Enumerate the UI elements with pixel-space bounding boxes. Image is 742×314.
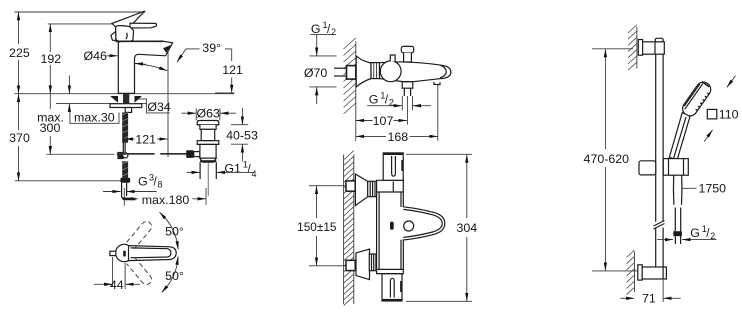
economy button + ring	[390, 221, 414, 231]
dimension Ø70 (escutcheon)	[304, 34, 337, 104]
svg-text:G: G	[690, 226, 700, 240]
dimension 470-620	[584, 49, 640, 271]
svg-text:max.30: max.30	[74, 110, 115, 124]
hose break + lower hose	[675, 208, 680, 232]
dimension 121 (spout height)	[215, 49, 243, 93]
svg-text:71: 71	[642, 292, 656, 306]
lever top view: handle body	[129, 246, 177, 261]
label Ø46 with arrow to body	[84, 49, 118, 63]
svg-text:121: 121	[135, 132, 156, 146]
faucet lever blade	[112, 11, 156, 30]
svg-text:G: G	[311, 22, 321, 36]
dimension 121 (spout reach)	[125, 130, 168, 146]
svg-text:107: 107	[373, 114, 394, 128]
faucet lever knuckle	[111, 26, 134, 42]
svg-text:G: G	[138, 175, 148, 189]
dashed lever position -50° (down)	[127, 257, 154, 286]
label 50° lower	[165, 269, 184, 283]
svg-text:304: 304	[456, 221, 477, 235]
svg-text:max.180: max.180	[142, 193, 190, 207]
braided supply hose	[122, 113, 128, 178]
shower hose outlet fitting	[402, 82, 413, 125]
hose end nut G1/2	[673, 231, 682, 244]
pop-up waste: tailpipe	[200, 162, 216, 196]
svg-text:168: 168	[387, 130, 408, 144]
thermostat body (front)	[377, 180, 445, 273]
dimension max.300	[37, 94, 64, 155]
countertop line	[14, 93, 234, 95]
dimension 40-53	[226, 108, 258, 162]
svg-text:Ø70: Ø70	[304, 66, 328, 80]
svg-text:40-53: 40-53	[226, 129, 258, 143]
dimension 304	[406, 154, 477, 301]
label G 1/2 (hose outlet) with pinch arrows	[367, 90, 431, 107]
svg-text:300: 300	[40, 121, 61, 135]
svg-text:121: 121	[222, 63, 243, 77]
svg-text:192: 192	[40, 52, 61, 66]
svg-text:Ø63: Ø63	[196, 106, 220, 120]
pop-up waste: plug cap	[197, 121, 219, 130]
svg-text:50°: 50°	[165, 269, 184, 283]
wall rail (lower part)	[656, 228, 663, 268]
pop-up waste: upper body	[197, 129, 219, 144]
svg-text:39°: 39°	[202, 41, 221, 55]
svg-text:G: G	[369, 92, 379, 106]
bottom wall block with hatching	[627, 250, 635, 295]
swivel arc upper with arrows	[160, 212, 179, 250]
svg-text:50°: 50°	[165, 225, 184, 239]
pop-up rod vertical	[122, 135, 124, 152]
spout outlet lip	[434, 82, 440, 85]
spout angle arc (39°)	[135, 63, 167, 70]
dimension 370	[9, 94, 30, 181]
supply pipe in wall	[334, 66, 356, 80]
wall rail (upper part)	[656, 54, 663, 222]
svg-text:225: 225	[9, 46, 30, 60]
label G 1/2 (wall union, top)	[310, 20, 336, 37]
top handle (temperature)	[383, 153, 403, 180]
label 39° with leader to aerator	[177, 41, 232, 62]
dimension 192	[40, 24, 61, 94]
dimension 107	[356, 114, 407, 128]
label G1 1/4 with pinch arrows on waste tailpipe	[187, 160, 257, 179]
label G 3/8 with pinch arrows on supply hose	[103, 173, 163, 192]
basin mixer: lever-base reference line	[48, 23, 116, 25]
label square-110	[704, 76, 739, 142]
label 1750 with leader	[683, 182, 727, 196]
dimension max.30 (counter thickness)	[69, 76, 119, 125]
bottom handle (volume)	[382, 274, 402, 301]
svg-text:8: 8	[158, 180, 163, 190]
faucet body column and spout	[116, 41, 173, 93]
svg-text:4: 4	[252, 169, 257, 179]
svg-text:G1: G1	[224, 161, 241, 175]
union nut	[371, 63, 380, 79]
mounting clamp under counter	[110, 94, 142, 112]
shower hose (upper)	[673, 175, 682, 205]
svg-text:2: 2	[331, 27, 336, 37]
lever top view: pivot circle	[110, 244, 133, 261]
dimension 168	[356, 85, 438, 144]
shower rail: top wall block with hatching	[628, 25, 637, 70]
svg-text:370: 370	[9, 131, 30, 145]
label 50° upper	[165, 225, 184, 239]
top stub	[390, 55, 395, 62]
label Ø34 with bracket leader	[138, 99, 171, 114]
supply tube with elbow	[122, 183, 136, 200]
dimension max.180	[124, 188, 206, 207]
dimension 71	[620, 280, 680, 306]
svg-text:110: 110	[719, 108, 739, 122]
hose connector nut	[120, 178, 130, 183]
top wall union nut + cone	[346, 174, 377, 206]
bottom wall union nut + cone	[346, 249, 377, 280]
diverter knob	[401, 46, 413, 62]
pop-up horizontal rod	[47, 153, 188, 155]
dimension 150±15	[297, 186, 346, 266]
hose-end reference line	[15, 180, 121, 182]
rail break symbol	[654, 221, 665, 230]
counter underside line	[56, 103, 147, 105]
escutcheon cone	[356, 56, 371, 87]
basin mixer: top reference line (lever tip)	[14, 11, 145, 13]
pop-up linkage cross fitting	[117, 152, 128, 159]
svg-text:Ø34: Ø34	[147, 100, 171, 114]
svg-text:44: 44	[110, 278, 124, 292]
svg-text:Ø46: Ø46	[84, 49, 108, 63]
handshower handle	[669, 113, 690, 160]
spout-tip extension line	[167, 52, 169, 157]
dimension 225	[9, 12, 30, 94]
thermostat handle circle	[380, 61, 401, 82]
bottom rail bracket	[638, 265, 667, 280]
dimension Ø63	[182, 106, 237, 120]
dashed lever position +50° (up)	[127, 219, 154, 248]
top rail bracket	[638, 38, 664, 55]
dimension 44	[94, 257, 140, 292]
svg-text:1750: 1750	[699, 182, 727, 196]
mixer body and spout	[380, 62, 451, 82]
handshower head	[680, 79, 714, 119]
svg-text:150±15: 150±15	[297, 220, 337, 234]
thermostat front view: wall with hatching	[344, 151, 354, 306]
slider holder on rail	[639, 159, 688, 176]
pop-up waste: lower body with knob	[186, 144, 216, 162]
label G 1/2 (hose thread) with pinch arrows	[657, 224, 717, 241]
bath mixer side view: wall with hatching	[344, 38, 356, 141]
swivel arc lower with arrows	[162, 257, 178, 293]
svg-text:470-620: 470-620	[584, 152, 630, 166]
